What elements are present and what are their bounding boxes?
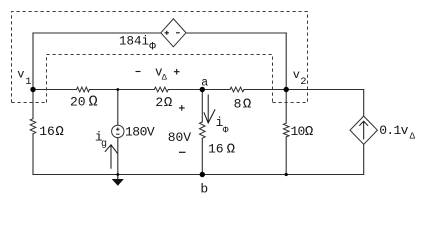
wire main rail segment 3 [168, 89, 230, 91]
junction 180V branch top (small dot) [116, 88, 119, 91]
wire left riser v1 to top [32, 33, 34, 90]
supernode dashed boundary bottom-left segment [12, 102, 47, 104]
wire 180V branch upper [117, 90, 119, 126]
current arrow ig [105, 145, 118, 169]
wire 10-ohm branch lower [285, 137, 287, 175]
resistor 2 ohm (zigzag, top rail) [154, 87, 168, 92]
label resistor 10 ohm [291, 124, 313, 140]
resistor 8 ohm (zigzag, top rail) [230, 87, 244, 92]
label resistor 16 ohm middle [208, 141, 235, 157]
arrow inside right diamond [359, 121, 368, 139]
svg-text:2Ω: 2Ω [155, 95, 172, 111]
wire middle branch upper (node a down) [201, 90, 203, 123]
supernode dashed boundary outer [12, 12, 308, 103]
junction 180V branch bottom (small dot) [116, 173, 119, 176]
plus sign inside 180V source [116, 128, 119, 131]
label resistor 16 ohm left [39, 124, 64, 140]
svg-text:b: b [200, 182, 208, 197]
svg-text:Δ: Δ [162, 73, 168, 83]
svg-text:20Ω: 20Ω [70, 94, 98, 111]
wire bottom rail [33, 174, 364, 176]
dependent current source 0.1vΔ (diamond) [350, 116, 377, 144]
svg-text:10Ω: 10Ω [291, 124, 313, 140]
supernode dashed boundary bottom-right segment [273, 102, 308, 104]
node v1 (dot) [30, 87, 35, 92]
junction 10-ohm branch bottom (small dot) [285, 173, 288, 176]
svg-text:80V: 80V [168, 130, 191, 145]
wire top right segment [186, 32, 286, 34]
ground [112, 175, 124, 186]
label 80V with polarity [168, 105, 191, 152]
wire right riser down to v2 [285, 33, 287, 90]
label 0.1vΔ [379, 123, 415, 141]
node v2 (dot) [284, 87, 289, 92]
current arrow iΦ [204, 95, 215, 123]
label resistor 8 ohm [234, 96, 252, 112]
svg-text:v: v [293, 68, 300, 82]
svg-text:180V: 180V [125, 124, 155, 139]
wire right source branch upper [363, 90, 365, 117]
label 180V [125, 124, 155, 139]
voltage source 180V (circle) [112, 125, 124, 137]
wire 180V branch lower [117, 137, 119, 174]
label resistor 2 ohm [155, 95, 172, 111]
minus sign inside top diamond [176, 32, 180, 34]
svg-text:2: 2 [300, 76, 306, 88]
label resistor 20 ohm [70, 94, 98, 111]
svg-text:v: v [17, 68, 24, 82]
resistor 16 ohm left (vertical zigzag) [30, 119, 36, 134]
resistor 20 ohm (zigzag, top rail) [77, 87, 90, 92]
label node a [201, 77, 208, 90]
svg-text:1: 1 [25, 76, 31, 88]
resistor 16 ohm middle (vertical zigzag) [200, 122, 206, 138]
supernode dashed boundary inner [47, 55, 273, 103]
node b (dot) [200, 172, 205, 177]
wire main rail segment 2 [90, 89, 155, 91]
svg-text:Φ: Φ [149, 42, 156, 54]
label current ig [95, 130, 107, 150]
node a (dot) [200, 87, 205, 92]
svg-text:Φ: Φ [223, 124, 229, 135]
label 184iΦ [119, 35, 156, 54]
svg-text:16Ω: 16Ω [39, 124, 64, 140]
dependent voltage source 184iΦ (diamond) [161, 19, 186, 47]
wire right source branch lower [363, 144, 365, 174]
svg-text:0.1v: 0.1v [379, 123, 408, 138]
label node v1 [17, 68, 31, 89]
label vΔ with polarity [136, 65, 180, 82]
wire top left segment [33, 32, 161, 34]
wire 10-ohm branch upper [285, 90, 287, 124]
minus sign inside 180V source [116, 133, 119, 135]
plus sign inside top diamond [165, 31, 169, 35]
wire left branch lower [32, 134, 34, 175]
wire main rail segment 1 [33, 89, 77, 91]
resistor 10 ohm (vertical zigzag) [283, 123, 289, 137]
wire left branch upper [32, 90, 34, 119]
label current iΦ [216, 115, 229, 135]
svg-text:184i: 184i [119, 35, 149, 49]
svg-text:Δ: Δ [410, 131, 416, 141]
wire middle branch lower (to node b) [201, 138, 203, 174]
label node b [200, 182, 208, 197]
wire main rail segment 4 [244, 89, 364, 91]
svg-text:8Ω: 8Ω [234, 96, 252, 112]
svg-text:g: g [101, 139, 107, 150]
svg-text:a: a [201, 77, 208, 90]
svg-text:16Ω: 16Ω [208, 141, 235, 157]
label node v2 [293, 68, 307, 88]
